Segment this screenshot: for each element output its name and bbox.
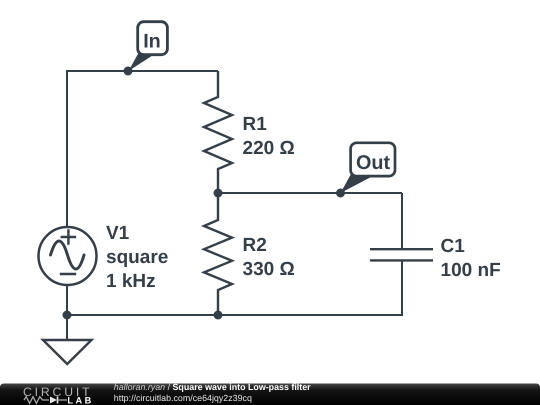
footer url line [114,393,252,403]
logo schematic glyph (resistor + diode) [24,397,67,404]
svg-text:halloran.ryan / Square wave in: halloran.ryan / Square wave into Low-pas… [114,382,311,392]
resistor R1 [204,71,232,193]
node junction R1-R2 [214,189,223,198]
svg-text:220 Ω: 220 Ω [243,138,295,159]
svg-text:Out: Out [356,152,390,174]
logo CIRCUIT [23,385,92,399]
wire bottom horizontal [67,314,402,316]
flag In [129,22,168,71]
flag Out [341,143,396,193]
node junction R2 bottom [214,311,223,320]
footer bar [0,384,540,405]
ground [43,340,92,364]
capacitor C1 [370,249,433,260]
svg-text:1 kHz: 1 kHz [106,271,156,292]
wire ground lead [66,315,68,340]
node junction V1 bottom [63,311,72,320]
footer credit line [114,382,311,392]
label R2 value [243,235,295,280]
svg-text:square: square [106,247,168,268]
node In [124,67,133,76]
svg-text:http://circuitlab.com/ce64jqy2: http://circuitlab.com/ce64jqy2z39cq [114,393,252,403]
label C1 value [441,236,501,281]
svg-text:R1: R1 [243,114,268,135]
label R1 value [243,114,295,159]
svg-text:100 nF: 100 nF [441,260,501,281]
voltage source V1 [39,227,97,285]
logo LAB [67,395,93,405]
node Out [336,189,345,198]
svg-text:LAB: LAB [67,395,93,405]
svg-text:V1: V1 [106,223,130,244]
wire middle horizontal (junction to right branch) [218,192,402,194]
wire top horizontal (V1 top to R1 top) [67,70,218,72]
svg-text:330 Ω: 330 Ω [243,259,295,280]
wire right vertical lower [401,261,403,317]
resistor R2 [204,193,232,315]
svg-text:R2: R2 [243,235,267,256]
svg-text:In: In [143,31,161,53]
wire V1 bottom [66,285,68,315]
label V1 value [106,223,168,292]
wire right vertical upper [401,193,403,249]
svg-text:C1: C1 [441,236,466,257]
wire left vertical (top corner down to V1) [66,70,68,227]
